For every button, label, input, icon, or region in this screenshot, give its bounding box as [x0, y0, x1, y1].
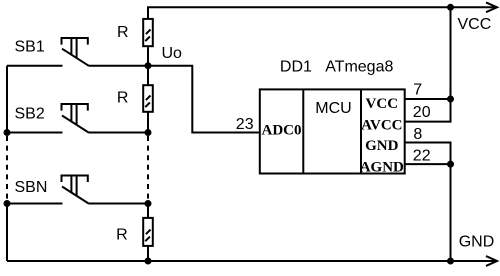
wire pin 8 — [405, 143, 451, 165]
svg-text:7: 7 — [413, 82, 422, 99]
node junction SBN left — [4, 200, 11, 207]
node junction SB2 right — [145, 129, 152, 136]
svg-text:23: 23 — [236, 116, 254, 133]
svg-text:MCU: MCU — [315, 100, 351, 117]
svg-text:SB2: SB2 — [15, 105, 45, 122]
node junction SB2 left — [4, 129, 11, 136]
svg-text:GND: GND — [459, 233, 495, 250]
wire R2 to SB2 node — [147, 112, 149, 133]
svg-text:VCC: VCC — [458, 16, 492, 33]
node junction pin22 — [447, 161, 454, 168]
svg-text:SBN: SBN — [15, 179, 48, 196]
resistor R3 — [143, 218, 153, 246]
svg-text:AVCC: AVCC — [361, 117, 402, 133]
node junction SBN right — [145, 200, 152, 207]
svg-text:22: 22 — [413, 148, 431, 165]
svg-text:R: R — [116, 227, 128, 244]
wire top VCC rail — [148, 7, 496, 19]
wire R1 to Uo node — [147, 47, 149, 65]
svg-text:Uo: Uo — [162, 45, 183, 62]
node Uo — [145, 62, 152, 69]
wire Uo to R2 — [147, 66, 149, 86]
svg-text:R: R — [117, 90, 129, 107]
node junction bottom-right — [447, 258, 454, 265]
svg-text:AGND: AGND — [360, 160, 404, 176]
svg-text:DD1: DD1 — [280, 58, 312, 75]
node junction bottom middle — [145, 258, 152, 265]
resistor R1 — [143, 19, 153, 46]
node junction pin7 — [447, 96, 454, 103]
wire R3 to GND rail — [147, 246, 149, 261]
IC divider left — [302, 89, 304, 173]
wire pin 22 — [405, 163, 451, 165]
svg-text:ATmega8: ATmega8 — [325, 58, 393, 75]
node junction top-right — [447, 4, 454, 11]
pushbutton SBN — [7, 176, 148, 204]
wire pin 20 — [405, 121, 451, 123]
wire pin 7 — [405, 98, 451, 100]
svg-text:R: R — [117, 24, 129, 41]
IC divider right — [360, 89, 362, 173]
wire right GND vertical rail — [450, 164, 452, 261]
power flag VCC arrow — [486, 2, 497, 12]
svg-text:20: 20 — [413, 104, 431, 121]
svg-text:ADC0: ADC0 — [262, 123, 302, 139]
power flag GND arrow — [486, 256, 497, 266]
wire left vertical SB1-SB2 — [6, 66, 8, 133]
wire Uo to ADC0 pin — [148, 66, 259, 133]
wire bottom GND rail — [7, 260, 496, 262]
svg-text:8: 8 — [413, 126, 422, 143]
svg-text:VCC: VCC — [366, 96, 399, 112]
IC DD1 ATmega8 MCU outline — [260, 89, 405, 173]
wire dashed middle continuation — [147, 136, 149, 201]
svg-text:SB1: SB1 — [15, 39, 45, 56]
pushbutton SB2 — [7, 104, 148, 133]
svg-text:GND: GND — [365, 138, 399, 154]
wire left vertical SBN-GND — [6, 204, 8, 262]
wire SBN node to R3 — [147, 204, 149, 218]
wire dashed left continuation — [6, 136, 8, 201]
wire right VCC vertical rail — [450, 7, 452, 122]
resistor R2 — [143, 85, 153, 112]
pushbutton SB1 — [7, 38, 148, 66]
